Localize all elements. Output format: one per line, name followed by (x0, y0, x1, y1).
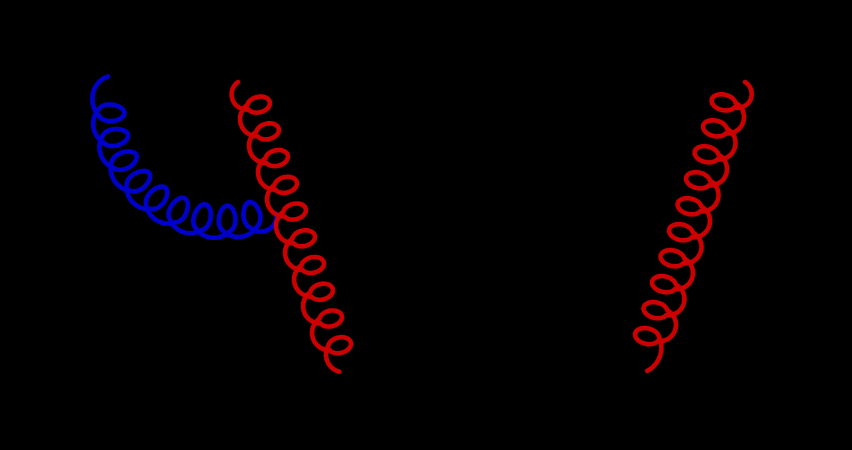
gluon g2 (left red) (232, 82, 351, 372)
gluon g1 (blue arc) (92, 77, 276, 238)
gluon g3 (right red) (635, 82, 752, 371)
